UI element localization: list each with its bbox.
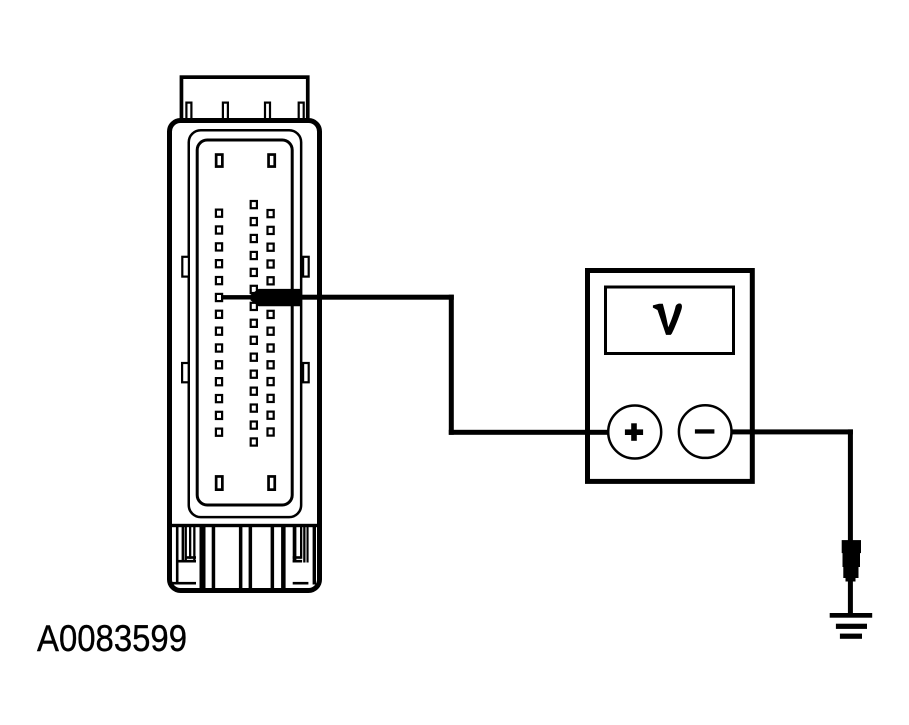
- pin column 1: [216, 210, 222, 436]
- lock slot 2: [249, 525, 275, 589]
- terminal - circle: [679, 405, 732, 458]
- plus sign: [625, 423, 643, 441]
- lock bar left: [200, 526, 206, 588]
- voltmeter body: [588, 271, 753, 482]
- cap tab 3: [265, 103, 270, 125]
- probe arrow at pin: [222, 289, 301, 306]
- guide pin bottom left: [216, 476, 222, 489]
- connector top cap: [181, 77, 307, 122]
- lock section right rib lines: [293, 526, 316, 585]
- lock section separator line: [172, 524, 317, 527]
- side latch right upper: [303, 257, 309, 277]
- cap tab 1: [186, 103, 191, 125]
- pin column 2: [251, 201, 257, 446]
- wire into + terminal: [449, 430, 635, 435]
- cap tab 4: [299, 103, 304, 125]
- cap tab 2: [223, 103, 228, 125]
- side latch right lower: [303, 363, 309, 382]
- lock slot 1: [212, 525, 243, 589]
- svg-text:A0083599: A0083599: [37, 617, 187, 659]
- lock section left rib lines: [172, 526, 196, 585]
- wire probe to ground: [848, 578, 853, 614]
- wire vertical to test probe: [848, 429, 853, 541]
- side latch left upper: [182, 257, 189, 277]
- side latch left lower: [182, 363, 189, 382]
- voltmeter V label: [653, 303, 682, 334]
- wire vertical segment: [449, 295, 454, 435]
- voltmeter display: [606, 287, 734, 354]
- minus sign: [695, 429, 715, 433]
- guide pin top right: [269, 155, 275, 167]
- ground symbol: [830, 613, 873, 639]
- connector body shell: [170, 121, 320, 591]
- guide pin bottom right: [269, 476, 275, 489]
- test probe plug: [842, 540, 861, 581]
- wire from probed pin to corner: [297, 295, 454, 300]
- inner shroud outline A: [189, 130, 301, 517]
- wire from - terminal: [705, 429, 853, 434]
- pin column 3: [268, 210, 274, 436]
- guide pin top left: [216, 155, 222, 167]
- figure label A0083599: [37, 617, 187, 659]
- terminal + circle: [608, 406, 661, 459]
- inner shroud outline B: [197, 140, 292, 505]
- lock bar right: [281, 526, 286, 588]
